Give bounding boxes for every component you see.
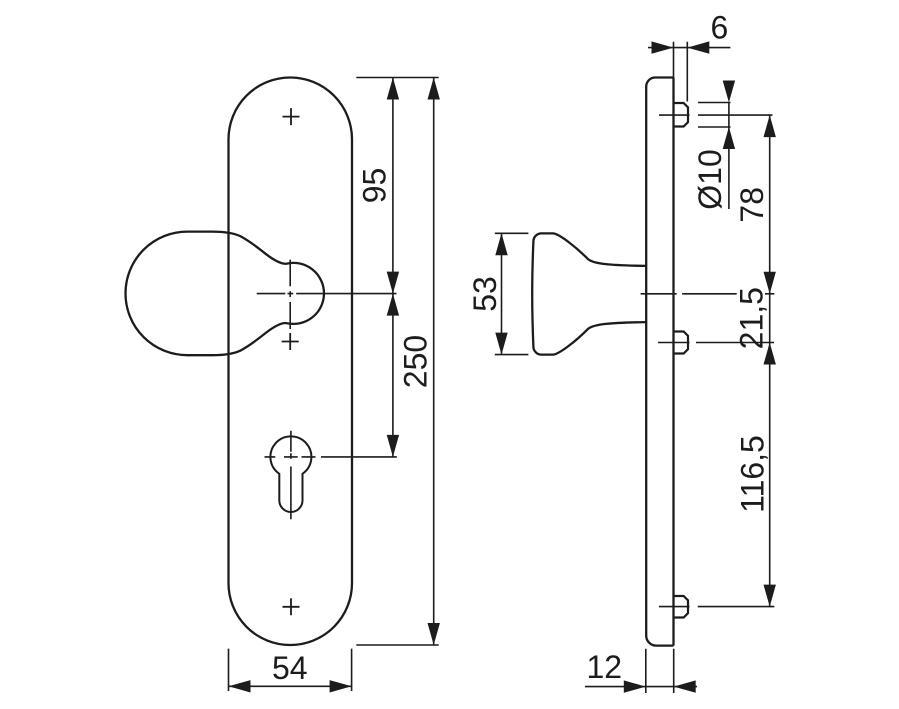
arrow 12 left — [624, 680, 646, 692]
svg-text:250: 250 — [398, 335, 434, 388]
arrow 95 bottom — [387, 272, 399, 294]
arrow dia10 top — [723, 81, 735, 103]
dim 54 extension lines — [229, 649, 352, 691]
side view knob profile — [532, 233, 646, 354]
svg-text:95: 95 — [357, 168, 393, 204]
extension line nub middle center — [696, 342, 774, 344]
svg-text:6: 6 — [711, 10, 729, 46]
svg-text:53: 53 — [467, 276, 503, 312]
arrow 53 bottom — [495, 333, 507, 355]
arrow 116,5 bottom — [764, 585, 776, 607]
knob centerline vertical — [289, 260, 291, 329]
nub bottom (M10) — [674, 596, 689, 618]
arrow 250 top — [428, 78, 440, 100]
screw hole cross middle — [282, 333, 299, 350]
dim 54 line — [229, 685, 352, 687]
svg-text:Ø10: Ø10 — [692, 149, 728, 209]
dim 53 line — [501, 233, 503, 354]
nub middle (M10) — [674, 332, 689, 354]
nub middle centerline — [658, 342, 690, 344]
arrow 54 left — [229, 680, 251, 692]
extension line keyhole center — [321, 456, 397, 458]
arrow 53 top — [495, 233, 507, 255]
arrow 116,5 top — [764, 343, 776, 365]
dim 6 line — [648, 47, 730, 49]
dim 12 extension lines — [646, 649, 674, 693]
keyhole centerline horizontal — [265, 456, 316, 458]
arrow 72 bottom — [387, 435, 399, 457]
extension line plate top — [356, 77, 438, 79]
arrow 78 top — [764, 115, 776, 137]
nub top (M10) — [674, 103, 689, 127]
plate front view outline — [229, 78, 353, 646]
nub bottom centerline — [659, 606, 690, 608]
svg-text:21,5: 21,5 — [733, 287, 769, 349]
dim 12 line — [585, 686, 697, 688]
extension line plate bottom — [356, 644, 438, 646]
keyhole (euro profile cylinder) — [270, 436, 311, 512]
screw hole cross bottom — [283, 598, 300, 615]
arrow 95 top — [387, 78, 399, 100]
arrow 54 right — [330, 680, 352, 692]
knob front view outline — [126, 232, 324, 356]
extension lines nub top for dia10 — [698, 103, 731, 128]
dimension line 95/72 chain — [392, 78, 394, 457]
side main dimension line 78/21,5/116,5 — [769, 115, 771, 606]
arrow 12 right — [674, 680, 696, 692]
extension line nub top center (78) — [698, 114, 773, 116]
arrow 6 left — [652, 41, 674, 53]
svg-text:78: 78 — [734, 187, 770, 223]
side view plate outline — [646, 78, 673, 646]
dim 6 extension lines — [674, 42, 688, 102]
arrow 250 bottom — [428, 623, 440, 645]
arrow 78 bottom — [764, 272, 776, 294]
arrow dia10 bottom — [723, 127, 735, 149]
svg-text:116,5: 116,5 — [734, 435, 770, 513]
arrow 72 top — [387, 294, 399, 316]
extension line nub bottom center — [698, 606, 775, 608]
svg-text:54: 54 — [272, 650, 308, 686]
dim 53 extension lines — [495, 233, 529, 354]
keyhole centerline vertical — [290, 431, 292, 520]
screw hole cross top — [283, 108, 300, 125]
svg-text:12: 12 — [587, 649, 623, 685]
side knob centerline — [641, 293, 775, 295]
knob centerline horizontal — [257, 293, 397, 295]
nub top centerline — [659, 114, 690, 116]
dimension line 250 — [433, 78, 435, 646]
arrow 6 right — [687, 41, 709, 53]
dia10 dim tail — [728, 103, 730, 210]
